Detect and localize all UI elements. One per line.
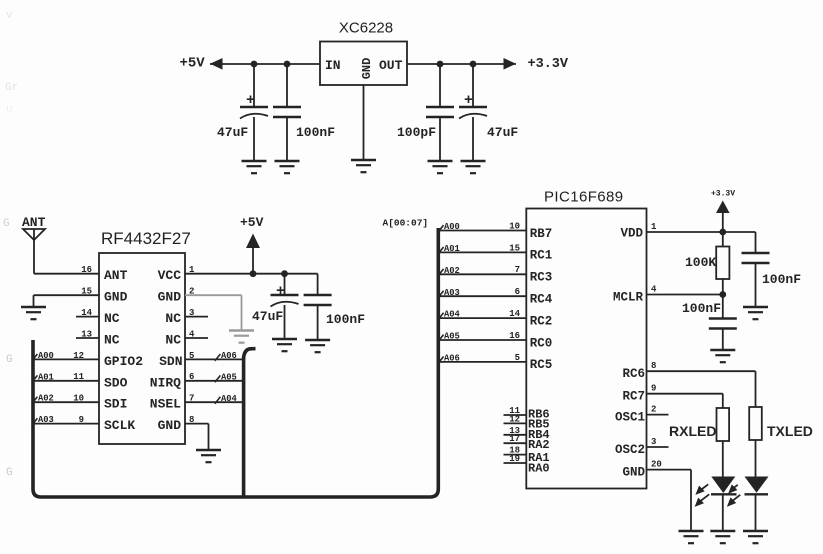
- svg-text:+: +: [276, 283, 285, 300]
- svg-text:100nF: 100nF: [762, 272, 801, 287]
- svg-text:SCLK: SCLK: [104, 418, 135, 433]
- svg-text:6: 6: [189, 372, 194, 382]
- svg-text:13: 13: [81, 329, 92, 339]
- svg-text:OSC2: OSC2: [615, 443, 645, 457]
- svg-text:GND: GND: [622, 465, 645, 479]
- svg-text:3: 3: [651, 437, 656, 447]
- svg-text:A01: A01: [38, 372, 54, 382]
- svg-text:6: 6: [515, 287, 520, 297]
- svg-text:+5V: +5V: [180, 56, 206, 72]
- svg-text:PIC16F689: PIC16F689: [544, 189, 623, 206]
- svg-text:VCC: VCC: [158, 268, 182, 283]
- svg-text:8: 8: [651, 361, 656, 371]
- svg-text:G: G: [6, 467, 13, 479]
- svg-text:SDO: SDO: [104, 375, 128, 390]
- svg-text:A06: A06: [444, 354, 460, 364]
- svg-text:A04: A04: [221, 394, 238, 404]
- svg-text:RC5: RC5: [530, 358, 553, 372]
- svg-text:A02: A02: [444, 266, 460, 276]
- svg-text:XC6228: XC6228: [339, 20, 393, 37]
- svg-text:2: 2: [189, 287, 194, 297]
- svg-text:7: 7: [515, 265, 520, 275]
- svg-text:14: 14: [509, 309, 520, 319]
- svg-text:MCLR: MCLR: [613, 291, 644, 305]
- svg-text:NSEL: NSEL: [150, 397, 181, 412]
- svg-text:RC0: RC0: [530, 336, 553, 350]
- svg-text:u: u: [6, 104, 13, 116]
- svg-text:10: 10: [73, 394, 84, 404]
- svg-text:+5V: +5V: [240, 215, 264, 230]
- svg-text:5: 5: [515, 353, 520, 363]
- svg-text:100nF: 100nF: [326, 312, 365, 327]
- svg-text:A05: A05: [221, 372, 237, 382]
- svg-text:100pF: 100pF: [397, 125, 436, 140]
- svg-text:16: 16: [509, 331, 520, 341]
- svg-text:9: 9: [79, 415, 84, 425]
- svg-text:G: G: [6, 354, 13, 366]
- svg-text:8: 8: [189, 415, 194, 425]
- svg-text:47uF: 47uF: [487, 125, 518, 140]
- svg-text:17: 17: [509, 434, 520, 444]
- svg-text:19: 19: [509, 454, 520, 464]
- svg-text:TXLED: TXLED: [767, 423, 813, 439]
- svg-text:RB7: RB7: [530, 227, 553, 241]
- svg-text:47uF: 47uF: [252, 309, 283, 324]
- svg-text:GND: GND: [158, 418, 182, 433]
- svg-text:RF4432F27: RF4432F27: [101, 229, 191, 248]
- svg-text:12: 12: [73, 351, 84, 361]
- svg-text:1: 1: [651, 222, 657, 232]
- svg-text:NC: NC: [165, 311, 181, 326]
- svg-text:GND: GND: [158, 290, 182, 305]
- svg-text:SDN: SDN: [159, 354, 182, 369]
- svg-text:9: 9: [651, 384, 656, 394]
- svg-text:v: v: [6, 10, 13, 22]
- svg-text:A02: A02: [38, 394, 54, 404]
- svg-text:+3.3V: +3.3V: [528, 57, 569, 72]
- svg-text:RXLED: RXLED: [669, 423, 716, 439]
- svg-text:GND: GND: [360, 58, 374, 80]
- svg-text:4: 4: [651, 285, 657, 295]
- svg-text:100K: 100K: [685, 255, 716, 270]
- svg-text:VDD: VDD: [620, 227, 643, 241]
- svg-text:100nF: 100nF: [682, 301, 721, 316]
- svg-text:15: 15: [81, 287, 92, 297]
- svg-text:1: 1: [189, 265, 195, 275]
- svg-text:11: 11: [73, 372, 84, 382]
- svg-text:14: 14: [81, 308, 92, 318]
- svg-text:47uF: 47uF: [217, 125, 248, 140]
- svg-text:+: +: [246, 92, 255, 109]
- svg-text:A03: A03: [38, 415, 54, 425]
- svg-text:RC4: RC4: [530, 293, 553, 307]
- svg-text:A03: A03: [444, 288, 460, 298]
- svg-text:GPIO2: GPIO2: [104, 354, 143, 369]
- svg-text:IN: IN: [325, 58, 341, 73]
- svg-text:RC3: RC3: [530, 271, 553, 285]
- svg-text:RA0: RA0: [528, 462, 550, 476]
- svg-text:A00: A00: [444, 222, 460, 232]
- svg-text:12: 12: [509, 414, 520, 424]
- svg-text:OUT: OUT: [379, 58, 403, 73]
- svg-text:7: 7: [189, 394, 194, 404]
- svg-text:16: 16: [81, 265, 92, 275]
- svg-text:NC: NC: [104, 333, 120, 348]
- svg-text:RC7: RC7: [622, 390, 645, 404]
- svg-text:2: 2: [651, 405, 656, 415]
- svg-text:NIRQ: NIRQ: [150, 375, 181, 390]
- svg-text:RC2: RC2: [530, 314, 553, 328]
- svg-text:4: 4: [189, 329, 195, 339]
- svg-text:A00: A00: [38, 351, 54, 361]
- svg-text:10: 10: [509, 221, 520, 231]
- svg-text:RC6: RC6: [622, 367, 645, 381]
- svg-text:ANT: ANT: [22, 215, 46, 230]
- svg-text:15: 15: [509, 243, 520, 253]
- svg-text:RA2: RA2: [528, 438, 550, 452]
- svg-text:A05: A05: [444, 332, 460, 342]
- svg-text:A01: A01: [444, 244, 460, 254]
- svg-text:RC1: RC1: [530, 249, 553, 263]
- svg-text:A04: A04: [444, 310, 461, 320]
- svg-text:ANT: ANT: [104, 268, 128, 283]
- svg-text:+: +: [464, 92, 473, 109]
- svg-text:5: 5: [189, 351, 194, 361]
- svg-text:A[00:07]: A[00:07]: [383, 218, 429, 229]
- svg-text:20: 20: [651, 460, 662, 470]
- svg-text:G: G: [3, 218, 10, 230]
- svg-text:OSC1: OSC1: [615, 410, 645, 424]
- svg-text:A06: A06: [221, 351, 237, 361]
- svg-text:+3.3V: +3.3V: [711, 190, 735, 199]
- svg-text:3: 3: [189, 308, 194, 318]
- svg-text:Gr: Gr: [5, 82, 18, 94]
- svg-text:GND: GND: [104, 290, 128, 305]
- svg-text:SDI: SDI: [104, 397, 127, 412]
- svg-text:100nF: 100nF: [296, 125, 335, 140]
- svg-text:NC: NC: [165, 333, 181, 348]
- svg-text:NC: NC: [104, 311, 120, 326]
